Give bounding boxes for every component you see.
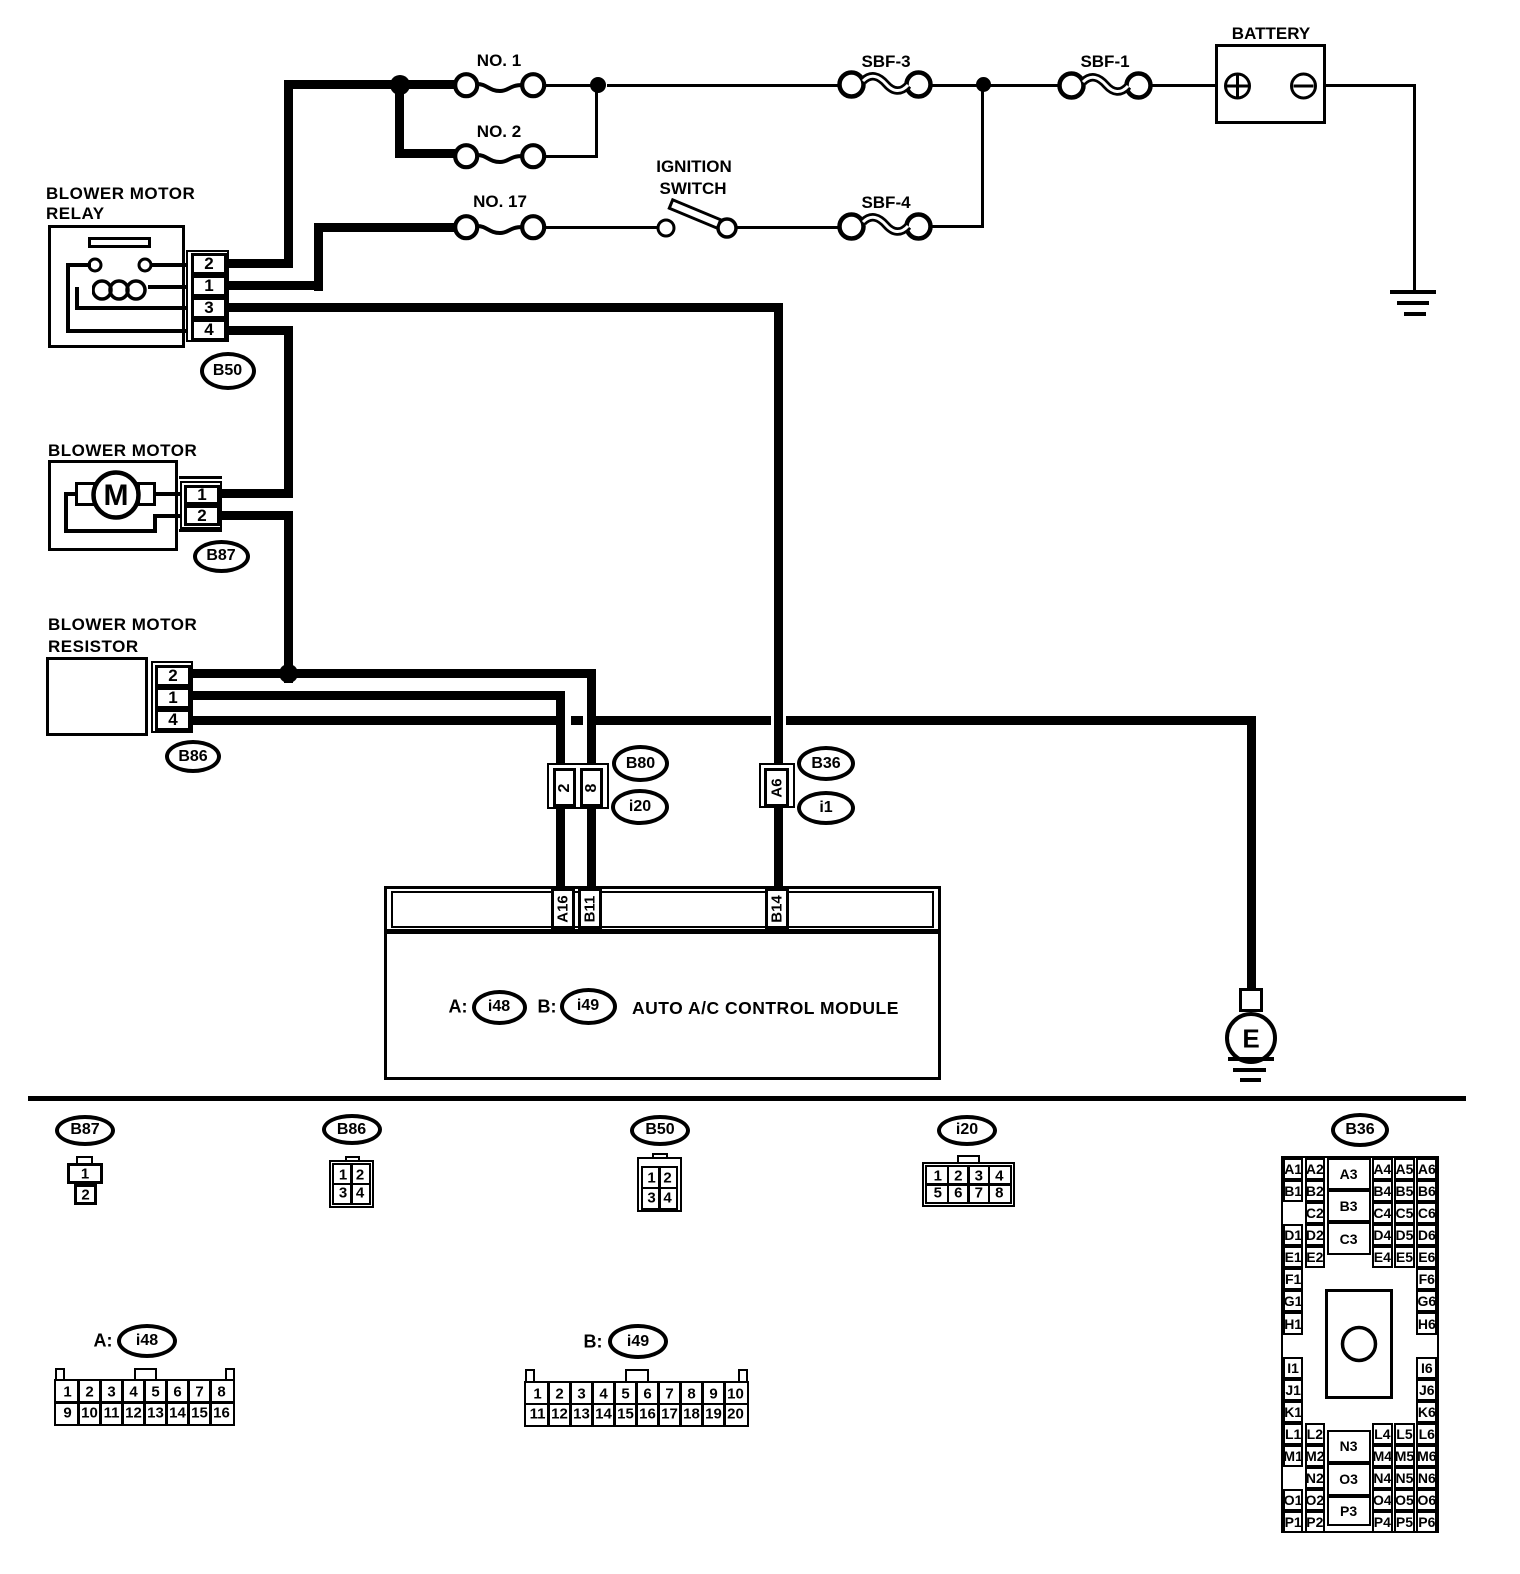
- B36 pin J1: [1283, 1379, 1303, 1401]
- B36 pin O1: [1283, 1489, 1303, 1511]
- wire: i20 pin 8 down to module B11: [587, 807, 596, 890]
- wire: ground lead segment 2: [596, 716, 771, 725]
- fuse SBF-3 element: [859, 71, 911, 101]
- B36 pin N6: [1416, 1467, 1437, 1489]
- B36 pin B6: [1416, 1180, 1437, 1202]
- relay wire: right contact to pin 2: [151, 263, 186, 267]
- wire: vertical into connector pin 2: [556, 691, 565, 770]
- fuse SBF-4 right terminal: [902, 210, 935, 243]
- connector label i20: [611, 789, 669, 825]
- B36 pin P3: [1327, 1496, 1371, 1526]
- motor wire: left brush stub: [64, 492, 76, 496]
- connector label B87: [193, 540, 250, 573]
- fuse SBF-3 right terminal: [902, 68, 935, 101]
- B36 pin A2: [1305, 1158, 1326, 1180]
- module connector oval i49: [560, 988, 617, 1025]
- label A:: [94, 1331, 113, 1352]
- B36 pin P1: [1283, 1511, 1303, 1533]
- i48 pins 1-16: [54, 1379, 235, 1426]
- fuse NO.17 left terminal: [451, 212, 481, 242]
- label BLOWER MOTOR RESISTOR line 1: [48, 615, 197, 635]
- connector pin A6: [764, 768, 789, 807]
- blower motor relay box: [48, 225, 185, 348]
- wire: battery negative lead thin: [1315, 84, 1416, 87]
- B86 view tab: [345, 1156, 360, 1164]
- ground E bar 2: [1233, 1068, 1266, 1072]
- bottom label i49: [608, 1324, 668, 1359]
- motor connector B87 shell: [180, 481, 222, 529]
- B36 pin N5: [1394, 1467, 1415, 1489]
- module pin B11: [578, 888, 602, 929]
- bottom label i48: [117, 1324, 177, 1358]
- wire: resistor pin 4 ground lead segment 1: [193, 716, 556, 725]
- bottom label B50: [630, 1115, 690, 1146]
- ground E connector box: [1239, 988, 1263, 1012]
- junction node fuse NO.1 feed: [390, 75, 410, 95]
- relay connector pin 2: [191, 253, 227, 275]
- ground E bar 1: [1228, 1057, 1274, 1061]
- wire: ignition switch to SBF-4 thin: [736, 226, 840, 229]
- relay wire: bottom to pin 4: [66, 329, 186, 333]
- wire: vertical to relay pin 1: [314, 223, 323, 291]
- resistor connector pin 1: [155, 687, 191, 709]
- B36 center key circle: [1338, 1323, 1380, 1365]
- i20 view pins 1-8: [925, 1165, 1012, 1204]
- B86 view shell: [329, 1160, 374, 1208]
- wire: motor pin 2 down to resistor junction: [284, 511, 293, 683]
- wire: vertical down to ground E: [1247, 716, 1256, 990]
- B36 pin A6: [1416, 1158, 1437, 1180]
- wire: relay pin 2 lead: [229, 259, 293, 268]
- B36 pin I1: [1283, 1357, 1303, 1379]
- B36 pin L2: [1305, 1423, 1326, 1445]
- relay contact bar: [88, 237, 151, 248]
- resistor connector pin 2: [155, 665, 191, 687]
- fuse SBF-4 element: [859, 212, 911, 242]
- B36 pin A5: [1394, 1158, 1415, 1180]
- auto A/C control module box: [384, 886, 941, 1080]
- relay connector pin 4: [191, 319, 227, 341]
- label AUTO A/C CONTROL MODULE: [632, 998, 899, 1019]
- B36 pin D6: [1416, 1224, 1437, 1246]
- i48 right tab: [225, 1368, 235, 1382]
- motor wire: to pin 2: [153, 514, 183, 518]
- fuse NO.1 right terminal: [518, 70, 548, 100]
- relay connector pin 1: [191, 275, 227, 297]
- wire: branch to fuse NO.2: [395, 149, 455, 158]
- B36 pin M5: [1394, 1445, 1415, 1467]
- inline connector i20 shell: [547, 763, 609, 809]
- label BLOWER MOTOR RELAY line 1: [46, 184, 195, 204]
- B36 pin N3: [1327, 1430, 1371, 1463]
- B36 pin D5: [1394, 1224, 1415, 1246]
- B36 pin G6: [1416, 1290, 1437, 1312]
- fuse NO.1 left terminal: [451, 70, 481, 100]
- bottom label B87: [55, 1115, 115, 1146]
- B36 pin F1: [1283, 1268, 1303, 1290]
- relay wire: coil to pin 3: [75, 306, 186, 310]
- relay contact circles: [85, 255, 155, 275]
- i49 left tab: [525, 1369, 535, 1383]
- relay connector pin 3: [191, 297, 227, 319]
- module divider line: [384, 929, 941, 934]
- B87 view pin 2: [74, 1184, 97, 1205]
- motor connector bottom flange: [179, 529, 222, 532]
- wire: relay pin 3 lead to A6: [229, 303, 783, 312]
- B36 pin A1: [1283, 1158, 1303, 1180]
- resistor connector B86 shell: [151, 661, 193, 733]
- relay wire: coil right to pin 1: [148, 285, 186, 289]
- motor left brush: [75, 482, 96, 506]
- motor wire: left vertical: [64, 492, 68, 533]
- B36 pin O3: [1327, 1463, 1371, 1496]
- section separator line: [28, 1096, 1466, 1101]
- B36 pin E2: [1305, 1246, 1326, 1268]
- B87 view tab: [76, 1156, 93, 1165]
- label BLOWER MOTOR RESISTOR line 2: [48, 637, 139, 657]
- motor wire: step vertical: [153, 514, 157, 533]
- i20 view shell: [922, 1162, 1015, 1207]
- bottom label i20: [937, 1115, 997, 1146]
- B36 pin O4: [1372, 1489, 1393, 1511]
- B36 pin M4: [1372, 1445, 1393, 1467]
- i20 view tab: [957, 1155, 980, 1164]
- fuse SBF-3 left terminal: [835, 68, 868, 101]
- B36 pin E4: [1372, 1246, 1393, 1268]
- wire: relay pin 4 lead: [229, 326, 293, 335]
- wire: ground lead segment 3 to E: [786, 716, 1256, 725]
- wire: junction down to NO.2 branch: [395, 84, 404, 158]
- label fuse SBF-4: [861, 193, 910, 213]
- B36 pin L4: [1372, 1423, 1393, 1445]
- motor wire: bottom horizontal: [64, 529, 157, 533]
- B36 pin K1: [1283, 1401, 1303, 1423]
- B36 center key body: [1325, 1289, 1393, 1399]
- B36 pin O5: [1394, 1489, 1415, 1511]
- label fuse NO. 2: [477, 122, 521, 142]
- relay wire: coil left vertical: [75, 287, 79, 309]
- B36 pin D2: [1305, 1224, 1326, 1246]
- ignition switch symbol: [650, 192, 750, 242]
- label IGNITION: [656, 157, 732, 177]
- module connector strip: [391, 891, 934, 928]
- wire: SBF-4 vertical to junction thin: [981, 86, 984, 227]
- B36 pin I6: [1416, 1357, 1437, 1379]
- fuse NO.17 element: [473, 217, 529, 241]
- fuse NO.17 right terminal: [518, 212, 548, 242]
- B36 pin C5: [1394, 1202, 1415, 1224]
- B36 pin B2: [1305, 1180, 1326, 1202]
- fuse NO.2 left terminal: [451, 141, 481, 171]
- i48 center tab: [134, 1368, 157, 1382]
- relay connector B50 shell: [186, 250, 229, 342]
- relay coil: [92, 278, 152, 303]
- label fuse NO. 1: [477, 51, 521, 71]
- B86 view pins 1-4: [332, 1163, 371, 1205]
- B36 pin E1: [1283, 1246, 1303, 1268]
- B36 pin C3: [1327, 1222, 1371, 1255]
- label fuse NO. 17: [473, 192, 527, 212]
- chassis ground bar 1: [1390, 290, 1436, 294]
- fuse SBF-4 left terminal: [835, 210, 868, 243]
- i49 pins 1-20: [524, 1381, 749, 1427]
- motor connector top flange: [179, 476, 222, 479]
- motor connector pin 2: [184, 505, 220, 526]
- module connector oval i48: [472, 990, 527, 1025]
- B36 pin L5: [1394, 1423, 1415, 1445]
- resistor connector pin 4: [155, 709, 191, 731]
- B36 pin E5: [1394, 1246, 1415, 1268]
- battery box: [1215, 44, 1326, 124]
- wire: blower motor pin 2 lead: [222, 511, 293, 520]
- B36 pin B4: [1372, 1180, 1393, 1202]
- relay wire: left contact vertical: [66, 263, 70, 333]
- B36 pin E6: [1416, 1246, 1437, 1268]
- B36 pin L6: [1416, 1423, 1437, 1445]
- wire: junction to fuse NO.1: [399, 80, 455, 89]
- module label B:: [538, 997, 557, 1018]
- blower motor box: [48, 460, 178, 551]
- wire: SBF-4 output thin: [929, 225, 984, 228]
- B36 pin G1: [1283, 1290, 1303, 1312]
- wire: i20 pin 2 down to module A16: [556, 807, 565, 890]
- B36 pin D4: [1372, 1224, 1393, 1246]
- bottom label B86: [322, 1114, 382, 1145]
- wire: NO.1 to junction thin: [544, 84, 591, 87]
- motor connector pin 1: [184, 485, 220, 505]
- junction node SBF-3/SBF-4: [976, 77, 991, 92]
- B36 pin C6: [1416, 1202, 1437, 1224]
- label BATTERY: [1232, 24, 1310, 44]
- battery terminals: [1222, 70, 1322, 102]
- B36 pin P4: [1372, 1511, 1393, 1533]
- ground E letter: [1242, 1024, 1259, 1055]
- connector label i1: [797, 791, 855, 825]
- B36 pin A3: [1327, 1158, 1371, 1190]
- wire: relay pin 1 lead: [229, 281, 323, 290]
- fuse SBF-1 right terminal: [1122, 69, 1155, 102]
- wire: battery to chassis ground vertical thin: [1413, 86, 1416, 291]
- wire: top horizontal to NO.1 junction: [284, 80, 409, 89]
- B36 pin M6: [1416, 1445, 1437, 1467]
- B36 pin O2: [1305, 1489, 1326, 1511]
- i20 pin 8: [580, 768, 603, 807]
- blower motor resistor box: [46, 657, 148, 736]
- B36 pin N2: [1305, 1467, 1326, 1489]
- module pin A16: [551, 888, 575, 929]
- motor M symbol: [104, 479, 129, 513]
- connector label B86: [165, 740, 221, 773]
- wire: NO.17 feed horizontal: [314, 223, 456, 232]
- fuse SBF-1 element: [1079, 72, 1131, 102]
- B36 pin B3: [1327, 1190, 1371, 1223]
- wire: NO.17 to ignition switch thin: [544, 226, 658, 229]
- fuse NO.2 right terminal: [518, 141, 548, 171]
- motor circle: [89, 468, 143, 522]
- connector label B36: [797, 746, 855, 781]
- wire: NO.2 branch vertical thin: [595, 86, 598, 157]
- wire: resistor pin 2 lead to i20 pin 8: [193, 669, 596, 678]
- wire: SBF-3 to SBF-1 thin: [929, 84, 1061, 87]
- B50 view pins 1-4: [641, 1166, 678, 1210]
- B36 pin B1: [1283, 1180, 1303, 1202]
- i48 left tab: [55, 1368, 65, 1382]
- wire: ground lead crossover dash: [571, 716, 583, 725]
- B50 view shell: [637, 1157, 682, 1212]
- B36 pin A4: [1372, 1158, 1393, 1180]
- wire: NO.2 output thin: [543, 155, 598, 158]
- label B:: [584, 1332, 603, 1353]
- wire: battery feed vertical to relay pin 2: [284, 80, 293, 268]
- B36 pin H6: [1416, 1312, 1437, 1334]
- label fuse SBF-1: [1080, 52, 1129, 72]
- B36 pin J6: [1416, 1379, 1437, 1401]
- wire: resistor pin 1 lead to i20 pin 2: [193, 691, 565, 700]
- wire: SBF-1 to battery thin: [1148, 84, 1226, 87]
- B36 pin P5: [1394, 1511, 1415, 1533]
- connector label B50: [200, 352, 256, 390]
- label SWITCH: [659, 179, 726, 199]
- motor right brush: [137, 482, 156, 506]
- inline connector A6 shell: [759, 763, 795, 808]
- connector label B80: [612, 745, 669, 782]
- module label A:: [449, 997, 468, 1018]
- chassis ground bar 2: [1397, 301, 1429, 305]
- label BLOWER MOTOR: [48, 441, 197, 461]
- B36 pin O6: [1416, 1489, 1437, 1511]
- B36 pin D1: [1283, 1224, 1303, 1246]
- i20 pin 2: [553, 768, 576, 807]
- wire: vertical into connector pin 8: [587, 669, 596, 770]
- label fuse SBF-3: [861, 52, 910, 72]
- B36 pin K6: [1416, 1401, 1437, 1423]
- B36 pin M2: [1305, 1445, 1326, 1467]
- B36 pin P6: [1416, 1511, 1437, 1533]
- B50 view tab: [652, 1153, 668, 1161]
- fuse NO.1 element: [473, 75, 529, 99]
- motor wire: right brush to pin 1: [156, 492, 184, 496]
- wire: blower motor pin 1 lead: [222, 489, 293, 498]
- B36 pin C2: [1305, 1202, 1326, 1224]
- i49 right tab: [738, 1369, 748, 1383]
- fuse NO.2 element: [473, 146, 529, 170]
- i49 center tab: [625, 1369, 649, 1383]
- B36 pin N4: [1372, 1467, 1393, 1489]
- B36 pin F6: [1416, 1268, 1437, 1290]
- B36 pin L1: [1283, 1423, 1303, 1445]
- ground E bar 3: [1240, 1078, 1261, 1082]
- connector B36 outline: [1281, 1156, 1439, 1533]
- relay wire: left contact stub: [66, 263, 91, 267]
- module pin B14: [765, 888, 789, 929]
- label BLOWER MOTOR RELAY line 2: [46, 204, 105, 224]
- wire: relay pin 4 down to blower motor pin 1: [284, 326, 293, 498]
- chassis ground bar 3: [1404, 312, 1426, 316]
- B87 view pin 1: [67, 1163, 103, 1184]
- B36 pin B5: [1394, 1180, 1415, 1202]
- B36 pin M1: [1283, 1445, 1303, 1467]
- B36 pin C4: [1372, 1202, 1393, 1224]
- wire: relay pin3/A6 vertical to module B14: [774, 303, 783, 890]
- B36 pin P2: [1305, 1511, 1326, 1533]
- ground E circle: [1223, 1010, 1279, 1066]
- wire: junction to SBF-3 thin: [607, 84, 840, 87]
- fuse SBF-1 left terminal: [1055, 69, 1088, 102]
- junction node NO.1/NO.2 output: [590, 77, 606, 93]
- bottom label B36: [1331, 1113, 1389, 1147]
- B36 pin H1: [1283, 1312, 1303, 1334]
- junction node motor/resistor: [279, 664, 298, 683]
